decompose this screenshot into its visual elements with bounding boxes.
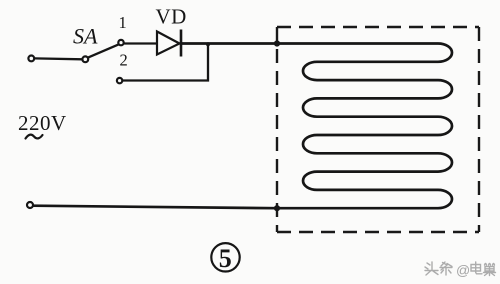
svg-text:220V: 220V bbox=[18, 111, 67, 135]
svg-text:@: @ bbox=[456, 262, 470, 278]
svg-text:5: 5 bbox=[219, 244, 232, 273]
svg-text:SA: SA bbox=[73, 24, 98, 49]
svg-text:VD: VD bbox=[156, 5, 187, 29]
svg-text:2: 2 bbox=[120, 51, 128, 70]
svg-text:1: 1 bbox=[119, 13, 127, 32]
